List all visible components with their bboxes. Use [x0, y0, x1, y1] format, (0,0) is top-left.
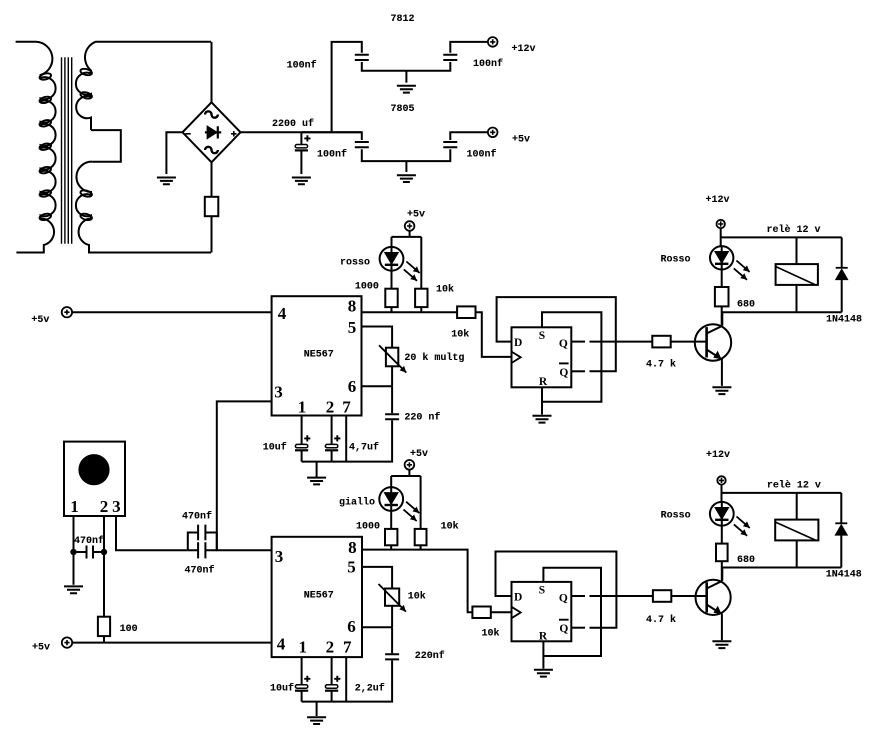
LED D4 giallo	[379, 487, 403, 511]
svg-text:rosso: rosso	[340, 258, 370, 269]
ground	[712, 387, 731, 394]
svg-text:100nf: 100nf	[466, 149, 496, 161]
capacitor C9 470nf	[74, 546, 105, 559]
capacitor C5 100nf (7805 out)	[443, 142, 457, 147]
ground	[397, 86, 416, 93]
wire pot to pin6	[362, 606, 392, 628]
wire 7812 output to +12v	[450, 42, 488, 53]
microphone MIC1 box	[64, 442, 125, 516]
wire R9 to FF clock	[491, 611, 512, 613]
wire bridge bottom to fuse	[211, 162, 213, 197]
capacitor C2 100nf (7812 in)	[355, 55, 369, 60]
capacitor C1 2200uf	[300, 132, 302, 144]
capacitor C4 100nf (7805 in)	[355, 142, 369, 147]
ground	[397, 175, 416, 182]
svg-text:2: 2	[326, 638, 335, 657]
capacitor C13 10uf	[304, 676, 310, 682]
ground	[712, 641, 731, 648]
svg-text:R: R	[539, 631, 548, 643]
LED D5 Rosso	[710, 502, 734, 526]
transformer T1 center tap	[91, 130, 121, 162]
wire +12v rail	[721, 228, 842, 246]
wire U3 R to ground	[541, 387, 543, 414]
ground	[157, 178, 176, 185]
svg-text:10k: 10k	[481, 628, 499, 640]
wire U4 D input loop from Qbar	[496, 552, 617, 628]
LED D1 rosso	[380, 247, 404, 271]
wire mic pin2	[103, 516, 105, 617]
svg-text:10uf: 10uf	[263, 441, 287, 453]
svg-text:Q: Q	[559, 338, 568, 350]
IC U2 NE567	[272, 537, 362, 657]
wire U3 Qbar stub	[571, 370, 585, 372]
microphone capsule	[78, 454, 109, 485]
wire to 7812 input	[332, 42, 362, 132]
svg-text:5: 5	[348, 318, 357, 337]
resistor R4 4.7k	[652, 336, 670, 348]
svg-text:+5v: +5v	[410, 449, 428, 460]
wire secondary top to bridge	[211, 42, 213, 103]
svg-text:S: S	[539, 330, 545, 342]
svg-text:4,7uf: 4,7uf	[349, 441, 379, 453]
wire U4 Qbar stub	[571, 627, 585, 629]
svg-text:8: 8	[348, 297, 357, 316]
wire U2 pin2 to C14	[331, 657, 333, 685]
svg-text:20 k multg: 20 k multg	[404, 352, 464, 364]
wire C6 to bottom rail	[302, 420, 393, 461]
svg-text:1000: 1000	[355, 282, 379, 293]
U4 clock triangle	[512, 607, 521, 618]
wire bridge plus output rail	[241, 131, 362, 133]
capacitor C10 470nf upper	[188, 525, 217, 551]
svg-text:3: 3	[275, 547, 284, 566]
svg-text:1: 1	[298, 397, 307, 416]
resistor R5 680	[715, 287, 729, 306]
wire +12v rail bottom	[722, 485, 842, 502]
wire U3 D input loop from Qbar	[497, 297, 616, 371]
wire U4 R to ground	[542, 641, 544, 668]
wire resistors to pin8 rail	[392, 307, 422, 312]
svg-text:10k: 10k	[451, 329, 469, 341]
bridge rectifier B1	[183, 102, 241, 162]
wire U2 pin1 to C13	[301, 657, 303, 685]
diode D3 1N4148	[841, 237, 843, 312]
wire R5 to collector node	[722, 306, 842, 325]
resistor R9 10k series	[472, 607, 490, 619]
wire U1 pin7 to rail	[345, 416, 347, 462]
bridge AC tilde bottom	[205, 147, 218, 153]
wire resistors to pin8 rail	[391, 545, 420, 549]
bridge diode symbol	[207, 126, 217, 139]
svg-text:NE567: NE567	[304, 349, 334, 360]
ground	[64, 586, 83, 593]
wire U1 pin1 to C7	[301, 416, 303, 445]
wire caps junction to U2 pin3	[217, 533, 272, 551]
terminal +12v	[488, 37, 498, 47]
capacitor C14 2,2uf	[334, 676, 340, 682]
svg-text:4: 4	[277, 634, 286, 653]
transistor Q1	[695, 324, 731, 360]
svg-text:100nf: 100nf	[317, 149, 347, 161]
wire R4 to Q1 base	[671, 341, 707, 343]
svg-text:8: 8	[348, 538, 357, 557]
capacitor C12 220nf	[385, 654, 399, 659]
svg-text:D: D	[514, 592, 522, 604]
wire 7805 ground rail	[362, 149, 451, 172]
svg-text:1N4148: 1N4148	[826, 569, 862, 580]
svg-text:1: 1	[298, 638, 307, 657]
junction	[70, 549, 76, 555]
svg-text:+5v: +5v	[32, 643, 50, 654]
wire U3 Q output	[571, 341, 585, 343]
resistor R1 1000	[385, 289, 397, 307]
svg-text:4.7 k: 4.7 k	[646, 614, 676, 626]
svg-text:R: R	[539, 376, 548, 388]
wire R10 to Q2 base	[671, 595, 706, 597]
resistor R8 10k	[415, 529, 427, 545]
wire led to R5	[721, 270, 723, 288]
wire led to R1	[391, 271, 393, 289]
wire U4 S-R ground loop	[543, 568, 601, 656]
resistor R2 10k	[415, 289, 427, 307]
wire mic pin1	[73, 516, 75, 585]
svg-text:D: D	[514, 337, 522, 349]
flip-flop U3	[512, 327, 572, 387]
svg-text:4: 4	[278, 304, 287, 323]
svg-text:100nf: 100nf	[473, 58, 503, 70]
bridge AC tilde top	[205, 111, 218, 117]
wire +5v to U1 pin4	[72, 311, 272, 313]
transformer T1 primary winding	[16, 42, 56, 253]
wire pot to pin6	[362, 366, 393, 386]
wire mic pin3	[116, 516, 188, 550]
bridge plus sign	[231, 131, 236, 136]
svg-text:7805: 7805	[390, 104, 414, 115]
svg-text:6: 6	[347, 617, 356, 636]
svg-text:7: 7	[342, 397, 351, 416]
svg-text:5: 5	[347, 557, 356, 576]
svg-text:+12v: +12v	[511, 44, 535, 55]
svg-text:1N4148: 1N4148	[826, 315, 862, 326]
LED D2 Rosso	[710, 246, 733, 269]
fuse F1	[205, 197, 219, 216]
wire U1 pin3	[217, 401, 272, 550]
capacitor C3 100nf (7812 out)	[443, 55, 457, 60]
svg-text:S: S	[539, 585, 545, 597]
wire Q2 emitter to ground	[721, 614, 723, 641]
resistor R7 1000	[385, 529, 397, 545]
svg-text:1: 1	[70, 497, 79, 516]
svg-text:relè 12 v: relè 12 v	[766, 224, 820, 236]
resistor R10 4.7k	[653, 590, 671, 602]
svg-text:10k: 10k	[441, 521, 459, 533]
wire U1 pin5 to pot	[362, 327, 393, 348]
potentiometer P1 20k	[386, 348, 398, 367]
svg-text:Q: Q	[559, 623, 568, 635]
wire led to R7	[390, 511, 392, 529]
wire Q1 emitter to ground	[721, 359, 723, 386]
potentiometer P2 10k	[385, 589, 399, 606]
wire led to R11	[721, 526, 723, 544]
wire fuse to secondary bottom	[211, 216, 213, 252]
bridge minus sign	[185, 133, 190, 135]
wire +5v to U2 pin4	[72, 642, 271, 644]
flip-flop U4	[512, 582, 572, 641]
svg-text:7: 7	[343, 638, 352, 657]
wire R11 to collector node	[722, 561, 842, 581]
wire 7812 ground rail	[362, 62, 451, 83]
svg-text:2: 2	[326, 397, 335, 416]
svg-text:220nf: 220nf	[415, 650, 445, 662]
svg-text:470nf: 470nf	[182, 511, 212, 523]
wire R3 to FF clock	[476, 312, 512, 357]
wire pin6 to C6	[391, 386, 393, 413]
svg-text:10k: 10k	[408, 591, 426, 603]
capacitor C8 4,7uf	[334, 435, 340, 441]
svg-text:3: 3	[112, 497, 121, 516]
svg-text:6: 6	[348, 377, 357, 396]
svg-text:220 nf: 220 nf	[404, 412, 440, 424]
ground	[534, 670, 553, 677]
wire U2 pin8 rail	[362, 550, 472, 613]
svg-text:470nf: 470nf	[184, 565, 214, 577]
svg-text:2200 uf: 2200 uf	[272, 118, 314, 130]
wire C12 to bottom rail	[302, 660, 393, 701]
junction	[101, 549, 107, 555]
wire +5v to led/resistor bar	[392, 231, 422, 289]
IC U1 NE567	[272, 296, 362, 415]
svg-text:+12v: +12v	[706, 450, 730, 461]
svg-text:7812: 7812	[390, 14, 414, 25]
ground	[307, 717, 326, 724]
transistor Q2	[696, 580, 731, 615]
resistor R3 10k series	[457, 306, 475, 318]
wire U1 pin2 to C8	[331, 416, 333, 445]
svg-text:Rosso: Rosso	[661, 510, 691, 521]
resistor R11 680	[716, 544, 728, 562]
transformer T1 secondary winding lower	[76, 162, 211, 253]
svg-text:3: 3	[274, 382, 283, 401]
ground	[307, 478, 326, 485]
ground	[292, 178, 311, 185]
capacitor C6 220nf	[385, 414, 399, 419]
svg-text:NE567: NE567	[304, 591, 334, 602]
transformer T1 core	[62, 57, 72, 244]
svg-text:680: 680	[737, 300, 755, 311]
capacitor C7 10uf	[304, 435, 310, 441]
svg-text:680: 680	[737, 555, 755, 566]
wire pin6 to C12	[391, 627, 393, 653]
U3 clock triangle	[512, 352, 521, 363]
transformer T1 secondary winding upper	[76, 42, 211, 130]
svg-text:10uf: 10uf	[270, 683, 294, 695]
resistor R6 100	[98, 617, 110, 636]
svg-text:Q: Q	[559, 367, 568, 379]
svg-text:+12v: +12v	[705, 195, 729, 206]
svg-text:+5v: +5v	[407, 210, 425, 221]
svg-text:relè 12 v: relè 12 v	[767, 479, 821, 491]
svg-text:Rosso: Rosso	[660, 254, 690, 265]
svg-text:100nf: 100nf	[287, 59, 317, 71]
LED arrows	[406, 262, 419, 273]
wire U1 pin8 rail	[362, 311, 458, 313]
ground	[533, 416, 552, 423]
svg-text:+5v: +5v	[512, 134, 530, 145]
wire 7805 output to +5v	[450, 132, 488, 140]
svg-text:4.7 k: 4.7 k	[646, 359, 676, 371]
wire ground stub	[316, 702, 318, 716]
wire U2 pin5 to pot	[362, 567, 392, 589]
wire ground stub	[316, 462, 318, 477]
wire +5v bar	[391, 470, 420, 529]
svg-text:100: 100	[120, 624, 138, 635]
terminal +5v	[488, 128, 498, 138]
wire U2 pin7 to rail	[345, 657, 347, 702]
wire U4 Q output	[571, 595, 585, 597]
svg-text:2: 2	[100, 497, 109, 516]
svg-text:1000: 1000	[356, 522, 380, 533]
wire to 7805 input	[301, 132, 361, 140]
svg-text:giallo: giallo	[339, 496, 375, 508]
svg-text:10k: 10k	[436, 283, 454, 295]
wire U3 S-R ground loop	[542, 312, 601, 401]
capacitor C11 470nf lower	[188, 542, 217, 558]
diode D6 1N4148	[840, 493, 842, 568]
wire bridge minus to ground	[166, 132, 182, 174]
svg-text:470nf: 470nf	[74, 535, 104, 547]
svg-text:2,2uf: 2,2uf	[355, 683, 385, 695]
svg-text:+5v: +5v	[31, 315, 49, 326]
svg-text:Q: Q	[559, 593, 568, 605]
